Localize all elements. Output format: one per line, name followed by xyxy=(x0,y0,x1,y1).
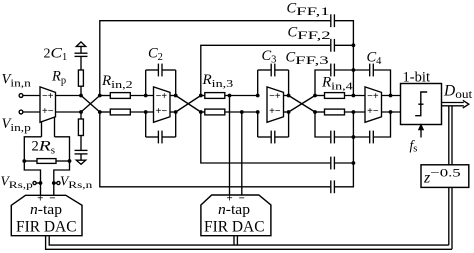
svg-text:2Rs: 2Rs xyxy=(32,139,56,157)
wire degeneration loop xyxy=(24,137,41,161)
reference arrow down (bottom column) xyxy=(76,160,85,164)
svg-text:n-tap: n-tap xyxy=(218,202,250,218)
svg-text:+−: +− xyxy=(269,106,281,117)
svg-text:Vin,n: Vin,n xyxy=(2,72,32,90)
svg-text:CFF,3: CFF,3 xyxy=(286,50,329,68)
svg-text:Dout: Dout xyxy=(443,82,473,101)
wire feedforward rail CFF2 bottom xyxy=(201,112,330,163)
capacitor C2 top bracket xyxy=(145,70,147,96)
wire A4 out to quantizer top xyxy=(382,95,401,97)
wire input stub Vin,p xyxy=(23,111,40,113)
wire Dout double line xyxy=(442,102,464,104)
wire CFF1' to junction column xyxy=(334,163,353,187)
svg-text:1-bit: 1-bit xyxy=(403,70,431,86)
node terminal VRs,p xyxy=(36,182,40,184)
svg-text:+: + xyxy=(37,193,43,205)
wire A1 output top xyxy=(56,95,82,97)
resistor Rin,4 bottom xyxy=(325,109,345,115)
svg-text:+−: +− xyxy=(42,106,54,117)
capacitor C4 top xyxy=(353,69,369,71)
svg-text:n-tap: n-tap xyxy=(30,202,62,218)
wire feedforward rail CFF3 top xyxy=(315,70,330,96)
quantizer U3 box 1-bit xyxy=(401,84,442,125)
capacitor CFF,2' xyxy=(330,157,332,170)
capacitor CFF,3 xyxy=(330,64,332,77)
wire feedforward rail CFF1 top xyxy=(100,21,330,96)
wire tap to FIR DAC2 minus xyxy=(241,112,243,195)
wire DAC2 feedback pins xyxy=(233,236,235,245)
resistor 2Rs xyxy=(37,159,56,164)
svg-text:fs: fs xyxy=(410,138,418,155)
wire tap to FIR DAC2 plus xyxy=(229,96,231,196)
wire junction to A4 input node bottom xyxy=(352,112,354,137)
wire node column to Rin2 xyxy=(100,95,111,97)
wire feedback drop to z-block xyxy=(448,106,450,245)
svg-text:FIR DAC: FIR DAC xyxy=(204,219,265,236)
FIR DAC U1 box xyxy=(11,195,82,235)
node terminal VRs,n xyxy=(57,181,60,184)
svg-text:CFF,2: CFF,2 xyxy=(288,25,331,43)
wire junction to A4 input node xyxy=(352,70,354,96)
svg-text:+: + xyxy=(226,193,232,205)
arrow head Dout xyxy=(463,100,469,108)
svg-text:VRs,n: VRs,n xyxy=(60,174,93,192)
wire cross-couple X2 xyxy=(176,96,201,113)
capacitor 2C1 (top column) xyxy=(75,55,88,57)
svg-text:C3: C3 xyxy=(262,48,277,66)
resistor Rin,3 top xyxy=(205,93,225,99)
svg-text:−: − xyxy=(49,193,55,205)
op-amp A4 xyxy=(365,87,382,122)
svg-text:−+: −+ xyxy=(367,91,379,102)
wire Rin2 to A2 xyxy=(130,95,153,97)
svg-text:+−: +− xyxy=(156,106,168,117)
wire CFF1 to junction column xyxy=(334,21,353,46)
wire node column to Rin3 xyxy=(201,95,205,97)
wire CFF3 to junction xyxy=(334,69,353,71)
svg-text:−: − xyxy=(239,193,245,205)
quantizer step symbol xyxy=(415,92,427,116)
resistor Rin,2 top xyxy=(110,93,130,99)
wire cross-couple X3 xyxy=(289,96,315,113)
wire A1 output bottom xyxy=(56,111,82,113)
op-amp A3 xyxy=(267,87,284,122)
capacitor CFF,1 xyxy=(330,14,332,27)
wire feedforward rail CFF3 bottom xyxy=(315,112,330,137)
wire VRs,p jog to DAC1 xyxy=(24,161,40,195)
capacitor C3 top bracket xyxy=(257,70,259,96)
svg-text:VRs,p: VRs,p xyxy=(1,174,34,192)
wire A3 out stubs xyxy=(284,95,289,97)
wire feedforward rail CFF1 bottom xyxy=(100,112,330,187)
svg-text:FIR DAC: FIR DAC xyxy=(16,219,77,236)
wire A2 out stubs xyxy=(170,95,176,97)
svg-text:−+: −+ xyxy=(156,91,168,102)
op-amp A2 xyxy=(154,87,171,122)
op-amp A1 xyxy=(40,87,56,122)
capacitor 2C1' (bottom column) xyxy=(75,149,88,151)
svg-text:−+: −+ xyxy=(269,91,281,102)
wire node column to Rin4 xyxy=(315,95,325,97)
svg-text:CFF,1: CFF,1 xyxy=(287,1,330,19)
resistor Rp' (bottom column) xyxy=(80,112,82,119)
svg-text:−+: −+ xyxy=(42,91,54,102)
resistor Rin,3 bottom xyxy=(205,109,225,115)
wire DAC1 feedback pins xyxy=(49,236,449,245)
FIR DAC U2 box xyxy=(201,195,271,236)
reference arrow up (top column) xyxy=(76,42,85,47)
wire CFF3' to junction xyxy=(334,136,353,138)
svg-text:Rin,3: Rin,3 xyxy=(202,72,234,90)
wire Rin3 to A3 xyxy=(225,95,258,97)
resistor Rin,4 top xyxy=(325,93,345,99)
capacitor C4 bottom xyxy=(353,136,369,138)
wire A4 out to quantizer bottom xyxy=(382,111,401,113)
wire input stub Vin,n xyxy=(23,95,40,97)
svg-text:+−: +− xyxy=(367,106,379,117)
capacitor CFF,1' xyxy=(330,180,332,193)
wire VRs,n jog to DAC1 xyxy=(54,161,70,195)
wire CFF2' to junction xyxy=(334,162,353,164)
svg-text:2C1: 2C1 xyxy=(44,46,68,64)
svg-text:C4: C4 xyxy=(367,50,383,68)
svg-text:C2: C2 xyxy=(148,46,163,64)
svg-text:Rin,2: Rin,2 xyxy=(101,73,133,91)
wire cross-couple X1 xyxy=(81,96,100,113)
wire Rin4 to A4 xyxy=(345,95,366,97)
svg-text:Vin,p: Vin,p xyxy=(2,116,32,134)
svg-text:Rp: Rp xyxy=(51,69,66,87)
node terminal Vin,n xyxy=(19,94,23,98)
op-amp A1 source pins xyxy=(41,122,43,137)
delay block z^-0.5 xyxy=(421,165,469,188)
capacitor C2 bottom bracket xyxy=(145,112,147,137)
wire feedforward rail CFF2 top xyxy=(201,45,330,95)
svg-text:Rin,4: Rin,4 xyxy=(321,75,353,93)
wire junction column up xyxy=(352,137,354,163)
capacitor CFF,2 xyxy=(330,39,332,52)
resistor Rp (top column) xyxy=(80,86,82,95)
capacitor CFF,3' xyxy=(330,131,332,144)
node terminal Vin,p xyxy=(19,110,23,114)
wire junction column down xyxy=(352,45,354,70)
capacitor C3 bottom bracket xyxy=(257,112,259,137)
wire CFF2 to junction column xyxy=(334,44,353,46)
clock fs arrow xyxy=(420,129,422,138)
resistor Rin,2 bottom xyxy=(110,109,130,115)
